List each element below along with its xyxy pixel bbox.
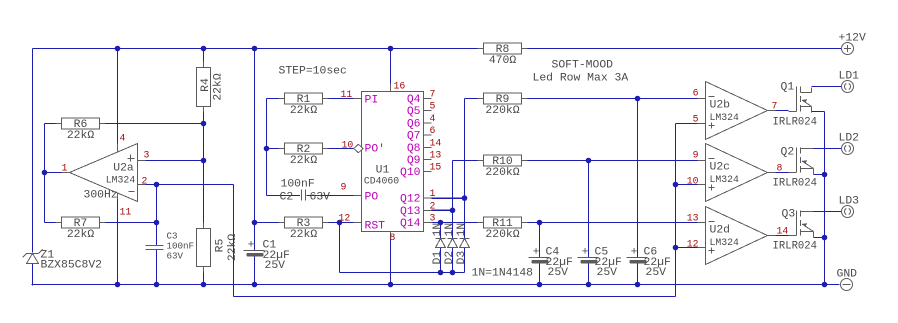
svg-text:LD2: LD2 <box>839 133 860 145</box>
label SOFT-MOOD <box>552 60 614 72</box>
svg-text:9: 9 <box>693 150 699 161</box>
junction <box>252 282 258 288</box>
svg-text:+12V: +12V <box>839 33 867 45</box>
svg-text:220kΩ: 220kΩ <box>485 105 519 117</box>
wire triangle-wave vertical right <box>675 124 677 297</box>
svg-text:GND: GND <box>837 269 858 281</box>
capacitor C3 <box>146 231 195 262</box>
wire +12V top rail <box>33 48 842 50</box>
pin stub U2a pin3 <box>138 160 146 162</box>
svg-text:2: 2 <box>430 200 436 211</box>
wire Q2 source jog <box>814 174 825 176</box>
junction <box>115 282 121 288</box>
pin 13 label <box>687 213 699 224</box>
svg-text:Q13: Q13 <box>400 206 421 218</box>
pin name Q13 <box>400 206 421 218</box>
capacitor C6 <box>627 247 672 280</box>
wire R1 left <box>267 98 285 100</box>
svg-text:14: 14 <box>777 226 789 237</box>
svg-text:CD4060: CD4060 <box>364 176 399 187</box>
junction <box>115 46 121 52</box>
svg-text:STEP=10sec: STEP=10sec <box>279 66 347 78</box>
svg-text:LD1: LD1 <box>839 71 860 83</box>
svg-text:25V: 25V <box>548 267 569 279</box>
pin 9 label <box>693 150 699 161</box>
pin stub Q8 <box>424 146 432 148</box>
pin 12 label <box>687 239 699 250</box>
junction <box>154 182 160 188</box>
pin 9 label <box>341 182 347 193</box>
pin name Q7 <box>407 131 421 143</box>
svg-text:220kΩ: 220kΩ <box>485 229 519 241</box>
svg-text:63V: 63V <box>310 192 331 204</box>
resistor R4 <box>197 62 225 113</box>
wire Q3 source jog <box>814 237 825 239</box>
svg-text:6: 6 <box>430 125 436 136</box>
svg-text:16: 16 <box>394 81 406 92</box>
wire U2b pin5 <box>676 123 698 125</box>
wire U1 pin8 ground <box>390 240 392 285</box>
svg-text:3: 3 <box>430 213 436 224</box>
label STEP=10sec <box>279 66 347 78</box>
svg-text:10: 10 <box>687 176 699 187</box>
svg-text:PI: PI <box>365 95 379 107</box>
svg-text:R4: R4 <box>200 78 212 92</box>
pin name RST <box>365 221 386 233</box>
pin stub Q5 <box>424 110 432 112</box>
label Led Row Max 3A <box>533 73 629 85</box>
svg-text:D1: D1 <box>432 251 444 265</box>
junction <box>388 282 394 288</box>
pin 10 label <box>687 176 699 187</box>
svg-text:4: 4 <box>120 133 126 144</box>
terminal +12V <box>839 33 867 55</box>
svg-text:LM324: LM324 <box>710 237 740 248</box>
svg-text:Q2: Q2 <box>781 147 795 159</box>
wire C5 bottom <box>588 264 590 285</box>
junction <box>586 158 592 164</box>
svg-text:22kΩ: 22kΩ <box>213 73 225 101</box>
junction <box>42 170 48 176</box>
wire U2a pin2 <box>146 184 234 186</box>
pin 1 label <box>62 163 68 174</box>
pin stub U2d out <box>768 235 776 237</box>
svg-text:25V: 25V <box>597 267 618 279</box>
svg-text:Q8: Q8 <box>407 143 421 155</box>
svg-text:1N: 1N <box>444 223 456 237</box>
wire D2 top lead <box>452 210 454 238</box>
label Q2 <box>781 147 795 159</box>
svg-text:6: 6 <box>693 88 699 99</box>
resistor R11 <box>478 217 528 241</box>
transistor Q2 <box>789 148 814 175</box>
pin 11 label <box>341 89 353 100</box>
pin 7 label <box>430 89 436 100</box>
wire D1 bottom lead <box>440 248 442 273</box>
op-amp U2c <box>706 144 768 202</box>
svg-text:7: 7 <box>772 101 778 112</box>
zener Z1 <box>23 250 103 272</box>
pin 6 label <box>430 125 436 136</box>
svg-text:22kΩ: 22kΩ <box>227 234 239 262</box>
pin stub U2c pin10 <box>698 184 706 186</box>
junction <box>450 208 456 214</box>
wire R9 left <box>465 98 484 100</box>
diode D1 <box>432 223 446 265</box>
svg-text:470Ω: 470Ω <box>489 55 517 67</box>
pin stub U1 RST <box>354 222 362 224</box>
wire R10 left <box>453 160 484 162</box>
svg-text:25V: 25V <box>646 267 667 279</box>
junction <box>462 195 468 201</box>
wire oscillator node vertical <box>266 99 268 196</box>
svg-text:11: 11 <box>341 89 353 100</box>
pin stub Q4 <box>424 98 432 100</box>
terminal GND <box>837 269 858 291</box>
wire U2a pin11 ground <box>117 200 119 285</box>
junction <box>537 282 543 288</box>
svg-text:22kΩ: 22kΩ <box>67 130 95 142</box>
wire R1 right to PI <box>323 98 355 100</box>
terminal LD3 <box>839 196 860 218</box>
svg-text:Q3: Q3 <box>782 209 796 221</box>
wire R7 right to pin2 node <box>100 222 157 224</box>
wire Q1 drain to LD1 <box>812 86 842 88</box>
resistor R3 <box>279 217 329 241</box>
pin stub U1 pin8 <box>390 232 392 240</box>
op-amp U2a <box>70 144 138 202</box>
svg-text:8: 8 <box>777 163 783 174</box>
pin 5 label <box>693 114 699 125</box>
wire Q12 pin1 row <box>432 197 465 199</box>
svg-text:300Hz: 300Hz <box>84 190 118 202</box>
svg-text:LM324: LM324 <box>710 174 740 185</box>
svg-text:11: 11 <box>120 207 132 218</box>
wire ground rail <box>32 284 840 286</box>
pin stub U2b pin6 <box>698 98 706 100</box>
pin stub U2d pin13 <box>698 222 706 224</box>
junction <box>822 235 828 241</box>
label Q3 <box>782 209 796 221</box>
pin 2 label <box>430 200 436 211</box>
junction <box>586 282 592 288</box>
svg-text:+: + <box>248 240 255 252</box>
svg-text:7: 7 <box>430 89 436 100</box>
junction <box>154 282 160 288</box>
svg-text:C2: C2 <box>280 192 294 204</box>
svg-text:63V: 63V <box>167 251 184 262</box>
wire U1 pin16 supply <box>390 49 392 84</box>
svg-text:LM324: LM324 <box>106 175 136 186</box>
pin 7 label <box>772 101 778 112</box>
junction <box>673 182 679 188</box>
svg-text:22kΩ: 22kΩ <box>290 155 318 167</box>
wire C2 left <box>267 195 301 197</box>
svg-text:+: + <box>582 247 589 259</box>
junction <box>154 220 160 226</box>
svg-text:PO': PO' <box>365 144 386 156</box>
svg-text:4: 4 <box>430 113 436 124</box>
svg-text:IRLR024: IRLR024 <box>773 117 818 129</box>
pin stub Q12 <box>424 197 432 199</box>
junction <box>201 282 207 288</box>
wire R3 right to RST <box>323 222 355 224</box>
pin stub U1 PI <box>354 98 362 100</box>
svg-text:1: 1 <box>430 188 436 199</box>
pin stub Q10 <box>424 171 432 173</box>
wire C3 top <box>156 185 158 246</box>
svg-text:D3: D3 <box>456 251 468 265</box>
pin name Q4 <box>407 94 421 106</box>
wire R2 right to PO' <box>323 148 354 150</box>
svg-text:IRLR024: IRLR024 <box>773 241 818 253</box>
wire R7 left <box>45 222 62 224</box>
pin stub U2a pin2 <box>138 184 146 186</box>
svg-text:U2d: U2d <box>710 225 731 237</box>
pin stub Q6 <box>424 122 432 124</box>
wire U2d pin12 <box>676 247 698 249</box>
terminal LD2 <box>839 133 860 155</box>
pin name Q9 <box>407 155 421 167</box>
resistor R7 <box>56 217 106 241</box>
label 1N=1N4148 <box>472 268 534 280</box>
svg-text:10: 10 <box>342 140 354 151</box>
wire U2a output node vertical <box>44 124 46 223</box>
svg-text:Q12: Q12 <box>400 194 421 206</box>
svg-text:22kΩ: 22kΩ <box>290 229 318 241</box>
svg-text:Led Row Max 3A: Led Row Max 3A <box>533 73 629 85</box>
wire R3 left <box>255 222 285 224</box>
pin 4 label <box>430 113 436 124</box>
svg-text:2: 2 <box>142 176 148 187</box>
wire RST to diode common <box>339 223 341 273</box>
svg-text:8: 8 <box>390 232 396 243</box>
pin stub U2c out <box>768 172 776 174</box>
wire R6 left <box>45 123 62 125</box>
diode D2 <box>444 223 458 265</box>
wire R4 bottom to R5 top <box>203 107 205 229</box>
wire Q3 drain to LD3 <box>814 211 842 213</box>
svg-text:+: + <box>631 247 638 259</box>
pin 13 label <box>430 150 442 161</box>
pin name Q10 <box>400 167 421 179</box>
pin 12 label <box>339 213 351 224</box>
junction <box>537 220 543 226</box>
svg-text:SOFT-MOOD: SOFT-MOOD <box>552 60 614 72</box>
svg-text:3: 3 <box>144 150 150 161</box>
svg-text:U2b: U2b <box>710 100 731 112</box>
pin 14 label <box>430 137 442 148</box>
pin 5 label <box>430 101 436 112</box>
pin 14 label <box>777 226 789 237</box>
capacitor C2 <box>280 179 331 204</box>
svg-text:U2c: U2c <box>710 162 731 174</box>
pin stub U2d pin12 <box>698 247 706 249</box>
resistor R8 <box>478 43 528 67</box>
wire C6 top <box>637 99 639 258</box>
junction <box>673 245 679 251</box>
svg-text:22kΩ: 22kΩ <box>67 229 95 241</box>
label IRLR024 Q1 <box>773 117 818 129</box>
svg-text:Q1: Q1 <box>781 82 795 94</box>
svg-text:+: + <box>533 247 540 259</box>
op-amp U2b <box>706 82 768 140</box>
pin 15 label <box>430 162 442 173</box>
wire triangle-wave bus bottom <box>234 296 676 298</box>
pin name PI <box>365 95 379 107</box>
pin name Q6 <box>407 118 421 130</box>
wire R2 left <box>267 148 285 150</box>
svg-text:1N: 1N <box>432 223 444 237</box>
junction <box>438 270 444 276</box>
resistor R6 <box>56 118 106 142</box>
svg-text:Q14: Q14 <box>400 218 421 230</box>
op-amp U2d <box>706 207 768 265</box>
label IRLR024 Q3 <box>773 241 818 253</box>
junction <box>450 270 456 276</box>
svg-text:R5: R5 <box>215 239 227 253</box>
svg-text:22kΩ: 22kΩ <box>290 105 318 117</box>
pin stub Q14 <box>424 222 432 224</box>
junction <box>201 121 207 127</box>
wire C6 bottom <box>637 264 639 285</box>
wire Q1 source jog <box>812 111 825 113</box>
pin 8 label <box>777 163 783 174</box>
wire C2 right to PO <box>307 195 355 197</box>
junction <box>252 220 258 226</box>
pin name Q14 <box>400 218 421 230</box>
wire C1 bottom <box>254 257 256 285</box>
svg-text:1N=1N4148: 1N=1N4148 <box>472 268 534 280</box>
svg-text:100nF: 100nF <box>281 179 315 191</box>
svg-text:Q6: Q6 <box>407 118 421 130</box>
junction <box>264 146 270 152</box>
resistor R5 <box>197 223 240 273</box>
wire C4 bottom <box>539 264 541 285</box>
svg-text:14: 14 <box>430 137 442 148</box>
wire Q14 pin3 row <box>432 222 484 224</box>
wire C3 bottom <box>156 250 158 285</box>
wire Q13 pin2 row <box>432 209 453 211</box>
svg-text:Q10: Q10 <box>400 167 421 179</box>
pin name Q8 <box>407 143 421 155</box>
svg-text:U2a: U2a <box>113 163 134 175</box>
wire D3 bottom lead <box>464 248 466 273</box>
pin stub U1 PO <box>354 195 362 197</box>
wire R10 left vertical <box>452 161 454 211</box>
wire D3/R9-left vertical <box>464 99 466 239</box>
junction <box>822 172 828 178</box>
pin stub Q7 <box>424 134 432 136</box>
svg-text:BZX85C8V2: BZX85C8V2 <box>41 260 103 272</box>
wire left supply vertical <box>32 49 34 253</box>
junction <box>201 46 207 52</box>
transistor Q1 <box>789 87 812 113</box>
wire C5 top <box>588 161 590 258</box>
wire D1 top lead <box>440 223 442 239</box>
diode D3 <box>456 223 470 265</box>
pin 16 label <box>394 81 406 92</box>
resistor R1 <box>279 93 329 117</box>
pin 6 label <box>693 88 699 99</box>
capacitor C1 <box>244 240 291 273</box>
svg-text:12: 12 <box>687 239 699 250</box>
svg-text:IRLR024: IRLR024 <box>773 178 818 190</box>
wire R9 right to pin6 <box>522 98 698 100</box>
wire U2c out pin8 <box>776 172 789 174</box>
pin stub U2a pin4 <box>117 144 119 152</box>
pin PO' inversion bubble <box>354 144 364 152</box>
capacitor C5 <box>578 247 623 280</box>
svg-text:13: 13 <box>430 150 442 161</box>
wire R6 right to divider <box>100 123 204 125</box>
label 300Hz <box>84 190 118 202</box>
svg-text:15: 15 <box>430 162 442 173</box>
terminal LD1 <box>839 71 860 93</box>
junction <box>635 96 641 102</box>
pin stub U2a out <box>62 172 70 174</box>
wire U2c pin10 <box>676 184 698 186</box>
pin name PO <box>365 192 379 204</box>
wire R11 right to pin13 <box>522 222 698 224</box>
pin stub Q13 <box>424 209 432 211</box>
resistor R9 <box>478 93 528 117</box>
wire U2d out pin14 <box>776 235 789 237</box>
wire source rail <box>824 112 826 285</box>
pin 1 label <box>430 188 436 199</box>
svg-text:220kΩ: 220kΩ <box>485 167 519 179</box>
pin stub U2c pin9 <box>698 160 706 162</box>
pin 3 label <box>430 213 436 224</box>
pin 8 label <box>390 232 396 243</box>
svg-text:9: 9 <box>341 182 347 193</box>
pin stub U2a pin11 <box>117 192 119 200</box>
pin stub U1 pin16 <box>390 84 392 92</box>
svg-text:D2: D2 <box>444 251 456 265</box>
transistor Q3 <box>789 211 814 238</box>
svg-text:LD3: LD3 <box>839 196 860 208</box>
pin 10 label <box>342 140 354 151</box>
svg-text:13: 13 <box>687 213 699 224</box>
pin 11 label <box>120 207 132 218</box>
wire R10 right to pin9 <box>522 160 698 162</box>
pin stub U2b pin5 <box>698 123 706 125</box>
wire triangle-wave vertical left <box>233 185 235 297</box>
svg-text:5: 5 <box>430 101 436 112</box>
wire diode common anode <box>340 272 465 274</box>
junction <box>201 158 207 164</box>
wire R4 top <box>203 49 205 68</box>
junction <box>635 282 641 288</box>
resistor R2 <box>279 143 329 167</box>
wire U2a pin3 <box>146 160 204 162</box>
svg-text:PO: PO <box>365 192 379 204</box>
pin stub U2b out <box>768 110 776 112</box>
svg-text:LM324: LM324 <box>710 112 740 123</box>
pin 4 label <box>120 133 126 144</box>
svg-text:Q5: Q5 <box>407 106 421 118</box>
pin stub Q9 <box>424 159 432 161</box>
pin stub U1 PO' <box>354 148 362 150</box>
resistor R10 <box>478 155 528 179</box>
junction <box>438 220 444 226</box>
wire U2a output pin1 <box>45 172 62 174</box>
wire R5 bottom <box>203 267 205 285</box>
svg-text:5: 5 <box>693 114 699 125</box>
pin name Q12 <box>400 194 421 206</box>
svg-text:1: 1 <box>62 163 68 174</box>
label IRLR024 Q2 <box>773 178 818 190</box>
